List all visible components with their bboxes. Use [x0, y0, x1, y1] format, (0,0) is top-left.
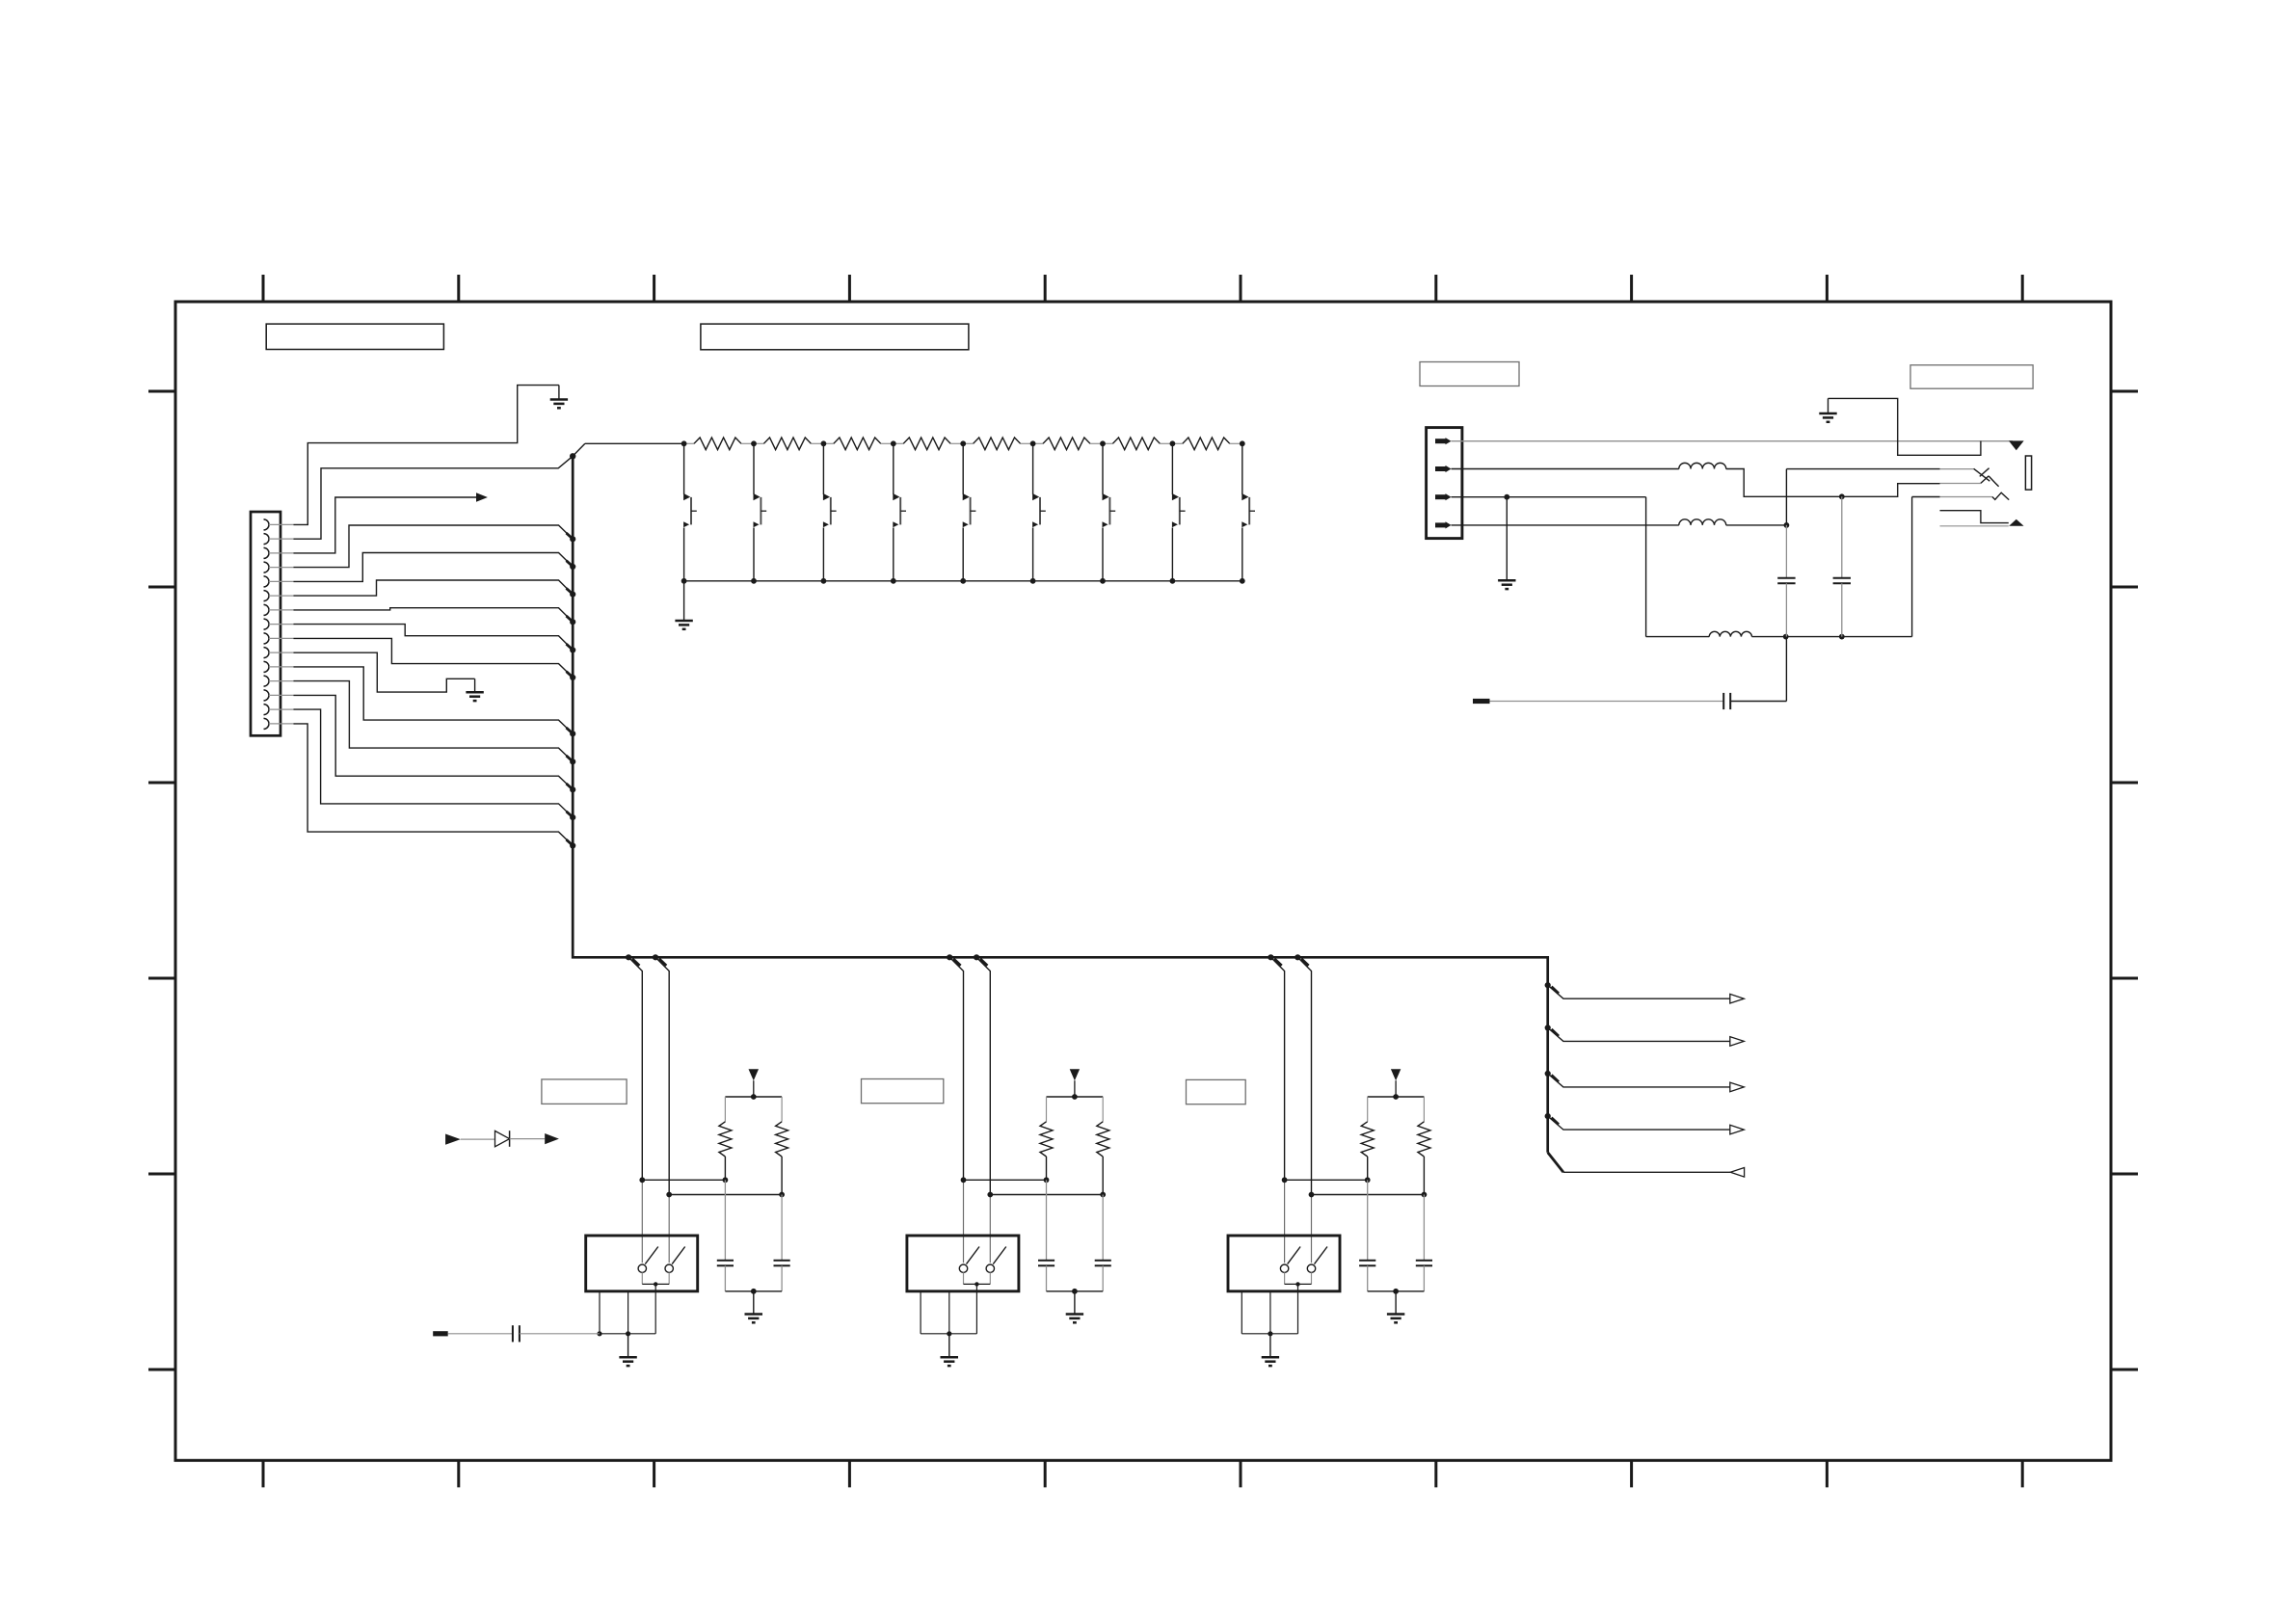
wire SW1 legs: [597, 1284, 655, 1336]
wire CN2 pin2: [1452, 468, 1679, 470]
wire CN1 pin13 to bus: [294, 695, 576, 792]
switch SW2: [907, 1236, 1019, 1291]
wire bus to SW3 a: [1268, 954, 1287, 1263]
wire CN1 pin14 to bus: [294, 709, 576, 820]
wire SW1 b to RB1: [669, 1192, 785, 1198]
wire L1 to jack ring: [1726, 469, 1940, 497]
output arrow O5: [1548, 1153, 1745, 1177]
label box 2: [701, 324, 969, 350]
transistor Q9: [1240, 440, 1255, 583]
jack tip contact: [1974, 468, 1990, 482]
transistor Q7: [1100, 440, 1115, 583]
wire CN2 pin1 sleeve: [1452, 440, 2014, 442]
node N3: [1368, 1094, 1425, 1100]
inductor L3: [1709, 631, 1751, 636]
wire jack ring lead: [1940, 483, 1981, 485]
transistor Q6: [1030, 440, 1046, 583]
ground G5: [1498, 580, 1515, 589]
wire CN1 pin5 to bus: [294, 553, 576, 582]
capacitor CA3: [1359, 1180, 1375, 1291]
wire SW1 a to RA1: [642, 1177, 728, 1183]
transistor Q1: [681, 440, 697, 583]
resistor R4: [894, 438, 963, 450]
wire CN2 pin3: [1452, 494, 1510, 580]
wire stub to C4: [448, 1333, 513, 1335]
transistor Q8: [1170, 440, 1186, 583]
wire bus to ladder: [573, 443, 683, 456]
wire jack tip lead: [1940, 468, 1974, 470]
wire ground loop to sleeve: [1829, 398, 1981, 455]
resistor R8: [1172, 438, 1241, 450]
jack aux mark: [2009, 519, 2023, 526]
resistor RB2: [1097, 1097, 1109, 1195]
wire C4 to SW1: [520, 1333, 600, 1335]
resistor R5: [963, 438, 1032, 450]
wire CN1 pin8 to bus: [294, 625, 576, 653]
wire SW3 legs: [1241, 1284, 1297, 1336]
switch SW1: [586, 1236, 698, 1291]
resistor R7: [1103, 438, 1172, 450]
wire CN1 pin2 to bus top: [294, 456, 574, 539]
ground GS3: [1262, 1334, 1279, 1366]
level mark T2: [1070, 1069, 1080, 1097]
switch SW3: [1228, 1236, 1340, 1291]
wire CN1 pin6 to bus: [294, 580, 576, 598]
wire jack tip line: [1786, 468, 1939, 470]
ground GS2: [941, 1334, 959, 1366]
wire L2 to node: [1726, 522, 1790, 528]
capacitor CA2: [1038, 1180, 1055, 1291]
wire pin3 to L3: [1507, 497, 1709, 637]
transistor Q4: [891, 440, 906, 583]
node cap2 top: [1839, 493, 1845, 499]
connector CN1: [251, 512, 294, 735]
node N1: [725, 1094, 782, 1100]
wire ladder source bus: [684, 580, 1242, 582]
net stub S1: [1473, 699, 1490, 704]
wire cap node 2: [1047, 1289, 1104, 1294]
bus wire: [570, 453, 1548, 1153]
wire CN1 pin11 to bus: [294, 667, 576, 737]
output arrow O3: [1545, 1071, 1745, 1092]
ground G1: [550, 386, 568, 409]
resistor R6: [1033, 438, 1103, 450]
transistor Q3: [821, 440, 837, 583]
wire SW3 a to RA3: [1285, 1177, 1371, 1183]
wire tip riser: [1785, 469, 1787, 578]
wire CN1 pin4 to bus: [294, 525, 576, 568]
ground GC3: [1387, 1291, 1404, 1323]
wire CN1 pin9 to bus: [294, 638, 576, 680]
resistor R1: [684, 438, 754, 450]
capacitor C1: [1777, 578, 1795, 637]
net stub S2: [433, 1331, 448, 1336]
capacitor C3: [1723, 693, 1730, 709]
wire jack contact lead: [1940, 496, 1992, 498]
wire bus to SW2 b: [974, 954, 993, 1263]
wire CN1 pin10 to ground: [294, 652, 475, 692]
capacitor C4: [513, 1325, 520, 1342]
ground GC1: [745, 1291, 763, 1323]
capacitor CB2: [1095, 1195, 1111, 1291]
wire bus to SW1 b: [653, 954, 672, 1263]
wire SW2 a to RA2: [964, 1177, 1050, 1183]
wire CN1 pin1 to ground: [294, 386, 559, 525]
label box 4: [1910, 365, 2033, 388]
wire stub to C3: [1490, 701, 1724, 703]
wire bus to SW3 b: [1295, 954, 1314, 1263]
ground G2: [466, 678, 483, 701]
diode D1: [445, 1131, 559, 1147]
wire SW2 legs: [921, 1284, 976, 1336]
wire bus to SW2 a: [947, 954, 966, 1263]
ground GC2: [1066, 1291, 1083, 1323]
wire cap node 1: [725, 1289, 782, 1294]
wire SW2 b to RB2: [990, 1192, 1106, 1198]
capacitor CB3: [1416, 1195, 1432, 1291]
resistor RB3: [1418, 1097, 1430, 1195]
wire bus to SW1 a: [626, 954, 645, 1263]
jack lower contact: [1992, 492, 2009, 499]
resistor RA1: [719, 1097, 732, 1180]
wire CN1 pin15 to bus: [294, 724, 576, 849]
ground G3: [675, 581, 692, 629]
ground GS1: [619, 1334, 636, 1366]
capacitor CA1: [717, 1180, 734, 1291]
output arrow O2: [1545, 1024, 1745, 1046]
arrow A1: [476, 492, 488, 501]
capacitor CB1: [774, 1195, 790, 1291]
output arrow O4: [1545, 1113, 1745, 1134]
wire CN2 pin4: [1452, 524, 1679, 526]
wire CN1 pin3: [294, 497, 477, 553]
wire jack aux lead: [1940, 525, 2009, 527]
resistor R2: [754, 438, 823, 450]
jack sleeve mark: [2009, 440, 2024, 450]
connector CN2: [1427, 428, 1462, 539]
transistor Q5: [960, 440, 975, 583]
wire SW3 b to RB3: [1312, 1192, 1428, 1198]
resistor RA3: [1361, 1097, 1374, 1180]
label box 1: [266, 324, 443, 349]
inductor L2: [1679, 519, 1726, 525]
level mark T1: [749, 1069, 760, 1097]
ground G4: [1819, 398, 1836, 421]
output arrow O1: [1545, 982, 1745, 1003]
resistor RA2: [1040, 1097, 1053, 1180]
label box SW3: [1187, 1079, 1246, 1104]
jack ring contact: [1981, 476, 1999, 487]
wire cap node 3: [1368, 1289, 1425, 1294]
node N2: [1047, 1094, 1104, 1100]
jack J1 body: [2025, 456, 2031, 490]
wire ground riser: [1730, 637, 1786, 702]
inductor L1: [1679, 463, 1726, 468]
wire ground bus to jack contact: [1752, 497, 1940, 640]
wire jack aux contact: [1940, 511, 2009, 523]
label box SW1: [542, 1079, 627, 1104]
label box SW2: [862, 1079, 944, 1104]
wire CN1 pin7 to bus: [294, 608, 576, 625]
resistor R3: [823, 438, 893, 450]
level mark T3: [1391, 1069, 1401, 1097]
wire CN1 pin12 to bus: [294, 681, 576, 765]
label box 3: [1420, 362, 1519, 386]
capacitor C2: [1833, 496, 1851, 636]
resistor RB1: [776, 1097, 788, 1195]
transistor Q2: [751, 440, 766, 583]
